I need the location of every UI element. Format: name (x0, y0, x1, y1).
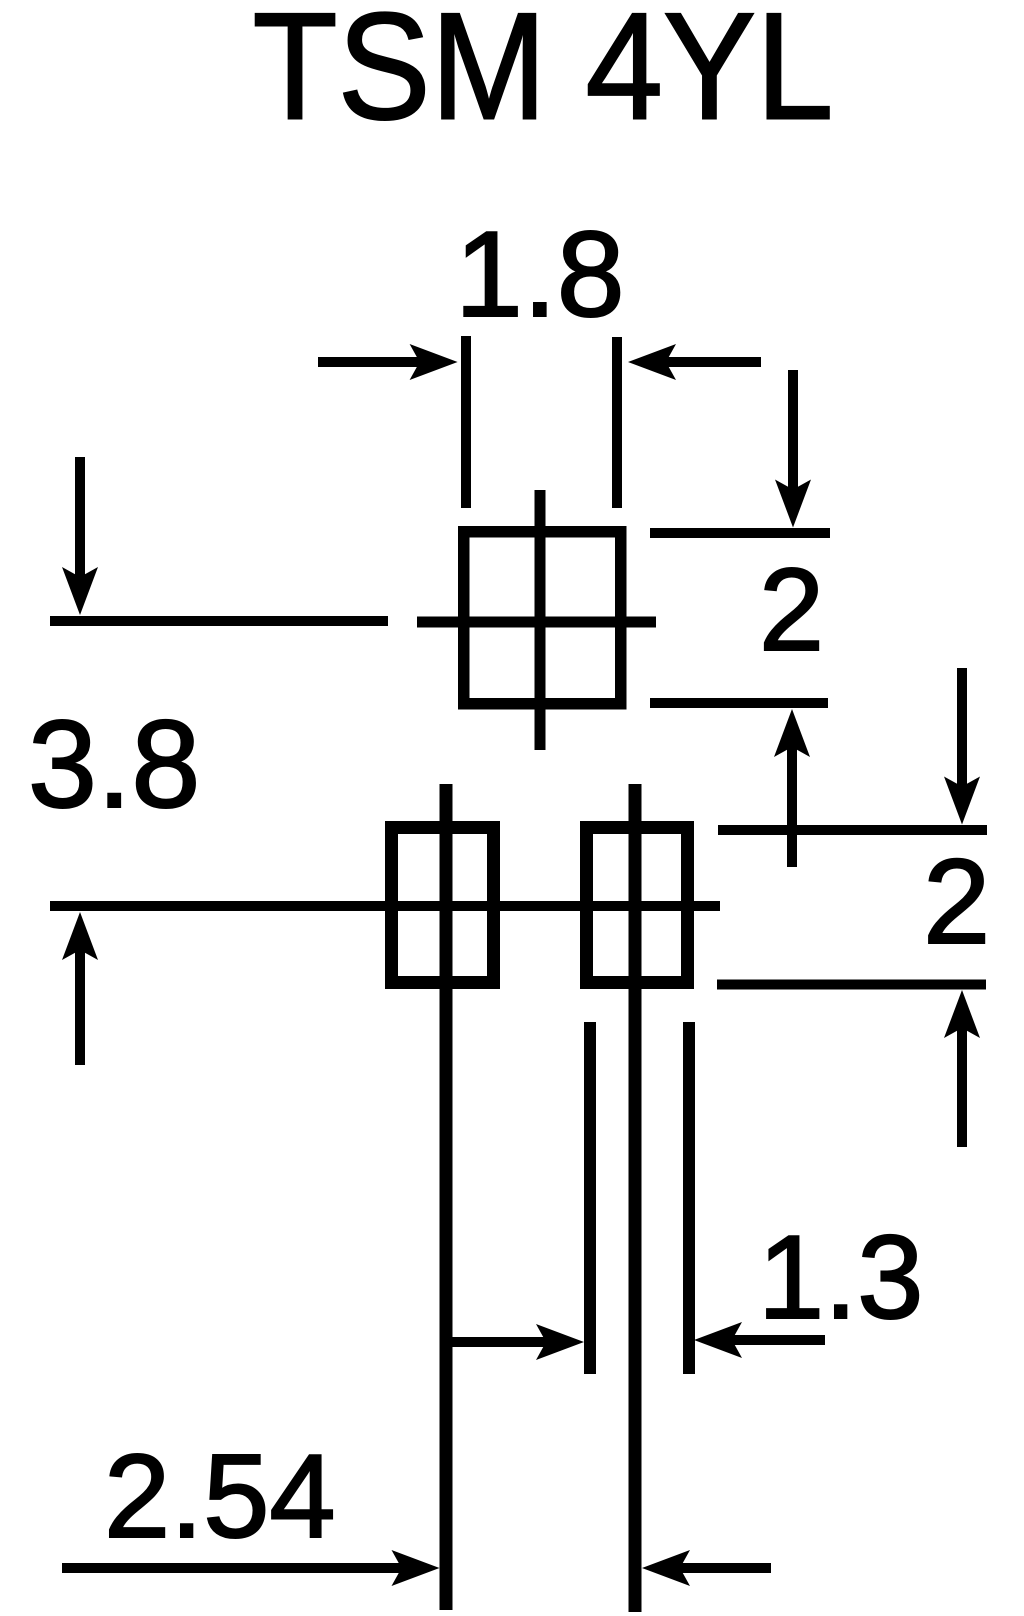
svg-text:2: 2 (923, 833, 990, 969)
svg-text:1.3: 1.3 (758, 1211, 923, 1344)
svg-text:3.8: 3.8 (28, 696, 200, 834)
svg-text:2: 2 (759, 544, 824, 675)
svg-text:TSM 4YL: TSM 4YL (253, 0, 834, 152)
svg-text:2.54: 2.54 (104, 1430, 336, 1563)
svg-text:1.8: 1.8 (455, 206, 625, 342)
